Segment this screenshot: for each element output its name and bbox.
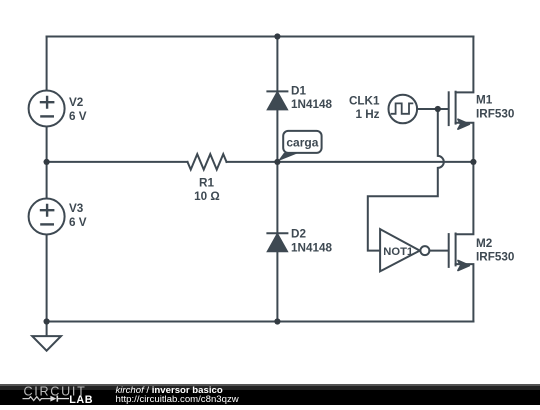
svg-text:1 Hz: 1 Hz bbox=[355, 108, 379, 121]
node left mid junction bbox=[44, 159, 50, 165]
clock source CLK1 bbox=[389, 95, 418, 124]
node bottom D2 junction bbox=[274, 318, 280, 324]
logo resistor-diode squiggle bbox=[23, 396, 70, 402]
transistor M1 bbox=[449, 37, 474, 162]
ground bbox=[32, 336, 61, 351]
wire NOT1 output to M2 gate bbox=[429, 250, 448, 252]
wire V3 to ground rail bbox=[46, 235, 48, 337]
wire gate junction down with hop bbox=[368, 109, 444, 251]
svg-text:6 V: 6 V bbox=[69, 110, 87, 123]
wire top rail bbox=[47, 36, 474, 38]
wire CLK1 to M1 gate bbox=[417, 108, 448, 110]
svg-text:NOT1: NOT1 bbox=[383, 246, 413, 258]
node left bottom junction bbox=[44, 318, 50, 324]
svg-text:10 Ω: 10 Ω bbox=[194, 190, 220, 203]
inverter NOT1 bbox=[380, 229, 429, 271]
diode D2 bbox=[267, 233, 287, 251]
svg-text:1N4148: 1N4148 bbox=[291, 98, 332, 111]
svg-text:1N4148: 1N4148 bbox=[291, 241, 332, 254]
svg-text:carga: carga bbox=[286, 136, 318, 150]
node top junction bbox=[274, 33, 280, 39]
svg-text:V3: V3 bbox=[69, 202, 84, 215]
wire mid horizontal left bbox=[47, 161, 188, 163]
voltage source V3 bbox=[29, 199, 65, 235]
wire mid to D2 bbox=[276, 162, 278, 234]
svg-text:IRF530: IRF530 bbox=[476, 251, 515, 264]
wire bottom rail bbox=[47, 321, 474, 323]
wire D1 to mid bbox=[276, 109, 278, 161]
svg-text:M1: M1 bbox=[476, 94, 493, 107]
node right mid junction bbox=[470, 159, 476, 165]
svg-text:6 V: 6 V bbox=[69, 216, 87, 229]
svg-text:D2: D2 bbox=[291, 228, 306, 241]
wire mid horizontal right bbox=[227, 161, 474, 163]
wire V2 to V3 bbox=[46, 127, 48, 199]
wire D1 branch upper bbox=[276, 37, 278, 93]
voltage source V2 bbox=[29, 91, 65, 127]
svg-text:IRF530: IRF530 bbox=[476, 107, 515, 120]
diode D1 bbox=[267, 91, 287, 109]
footer bar bbox=[0, 384, 540, 405]
svg-text:CLK1: CLK1 bbox=[349, 94, 380, 107]
svg-text:V2: V2 bbox=[69, 96, 84, 109]
svg-text:LAB: LAB bbox=[69, 394, 93, 405]
wire left vertical upper bbox=[46, 37, 48, 91]
node carga flag bbox=[278, 131, 322, 161]
node gate junction bbox=[435, 106, 441, 112]
transistor M2 bbox=[449, 162, 474, 322]
node carga junction bbox=[274, 159, 280, 165]
svg-text:R1: R1 bbox=[199, 176, 214, 189]
svg-text:D1: D1 bbox=[291, 85, 306, 98]
svg-text:http://circuitlab.com/c8n3qzw: http://circuitlab.com/c8n3qzw bbox=[116, 394, 239, 405]
svg-text:M2: M2 bbox=[476, 237, 493, 250]
wire D2 to bottom rail bbox=[276, 251, 278, 321]
resistor R1 bbox=[188, 154, 227, 170]
